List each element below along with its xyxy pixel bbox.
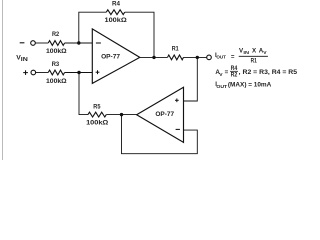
resistor R3 (48, 70, 64, 75)
fraction bar VIN x AV / R1 (239, 55, 268, 57)
node: sense junction after R1 (196, 56, 199, 59)
wire: plus terminal to R3 (36, 72, 49, 74)
svg-text:OP-77: OP-77 (101, 54, 120, 61)
terminal plus input (31, 70, 36, 75)
label AV equation line 2 (215, 65, 297, 79)
op-amp U1 minus pin sign (96, 42, 101, 44)
svg-text:V: V (219, 72, 223, 78)
wire: minus terminal to R2 (35, 42, 48, 44)
svg-text:R2: R2 (52, 31, 60, 38)
svg-text:OP-77: OP-77 (155, 111, 174, 118)
wire: opamp1 output to R1 (140, 56, 168, 58)
label IOUT equation line 1 (215, 47, 267, 64)
svg-text:=: = (231, 53, 235, 60)
svg-text:IN: IN (243, 50, 249, 56)
resistor R5 (88, 112, 106, 117)
minus sign (20, 42, 25, 44)
plus sign (23, 70, 28, 75)
node: R4 tap on minus input (77, 41, 80, 44)
svg-text:100kΩ: 100kΩ (46, 78, 67, 85)
svg-text:100kΩ: 100kΩ (86, 120, 108, 127)
wire: R5 branch from plus node (79, 73, 88, 115)
resistor R2 (48, 41, 64, 46)
wire: opamp2 feedback loop (122, 115, 198, 154)
op-amp U2 plus pin sign (175, 98, 179, 102)
svg-text:R5: R5 (93, 103, 101, 110)
op-amp U2 minus pin sign (176, 128, 180, 130)
fraction bar R4 / R2 (230, 70, 238, 72)
wire: feedback up-left from minus node to R4 (79, 12, 107, 43)
wire: R2 to opamp minus input (65, 42, 93, 44)
svg-text:IN: IN (21, 57, 28, 63)
node: R5 tap on plus input (77, 71, 80, 74)
op-amp U1 plus pin sign (96, 70, 100, 74)
resistor R4 (106, 10, 124, 15)
svg-text:R3: R3 (52, 61, 60, 68)
terminal output (207, 55, 212, 60)
svg-text:R4: R4 (112, 0, 121, 7)
svg-text:V: V (263, 50, 267, 56)
svg-text:OUT: OUT (216, 84, 227, 90)
svg-text:100kΩ: 100kΩ (105, 17, 127, 24)
wire: sense junction down to opamp2 plus input (184, 57, 198, 101)
svg-text:R1: R1 (172, 46, 179, 53)
node: opamp2 output junction (120, 113, 123, 116)
wire: R3 to opamp plus input (65, 72, 93, 74)
op-amp U2 OP-77 (137, 87, 184, 142)
label IOUT max line 3 (215, 81, 272, 90)
svg-text:, R2 = R3, R4 = R5: , R2 = R3, R4 = R5 (239, 69, 298, 76)
terminal minus input (31, 41, 36, 46)
wire: R1 to output terminal (184, 56, 207, 58)
svg-text:(MAX) = 10mA: (MAX) = 10mA (228, 82, 272, 89)
svg-text:OUT: OUT (216, 55, 226, 61)
op-amp U1 OP-77 (92, 29, 140, 84)
wire: R4 right to output node (125, 12, 154, 57)
svg-text:X: X (252, 47, 257, 54)
svg-text:R1: R1 (251, 58, 258, 65)
node: feedback junction at output (152, 56, 155, 59)
svg-text:R2: R2 (231, 72, 238, 79)
svg-text:100kΩ: 100kΩ (46, 48, 67, 55)
svg-text:=: = (225, 69, 229, 76)
label VIN (16, 54, 28, 63)
resistor R1 (168, 55, 184, 60)
wire: R5 to opamp2 output (106, 114, 136, 116)
page edge line (2, 0, 4, 160)
